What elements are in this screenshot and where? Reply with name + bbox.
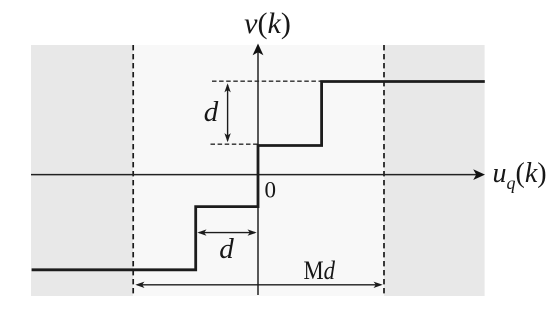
v axis (vertical) <box>257 52 259 295</box>
svg-text:Md: Md <box>304 256 336 285</box>
u axis (horizontal) <box>31 174 477 176</box>
dashed level line at middle step <box>211 143 259 145</box>
svg-text:uq(k): uq(k) <box>493 158 547 193</box>
v axis arrowhead <box>253 44 264 56</box>
dashed boundary line right <box>383 45 385 296</box>
svg-text:0: 0 <box>265 178 277 203</box>
vertical dimension arrow d (step height) <box>227 85 229 141</box>
right saturation region (gray) <box>384 45 485 296</box>
svg-text:v(k): v(k) <box>244 7 291 40</box>
quantizer input range panel (background) <box>31 45 485 296</box>
quantizer staircase curve <box>32 82 485 270</box>
svg-text:d: d <box>204 96 219 128</box>
svg-text:d: d <box>219 233 234 265</box>
u axis arrowhead <box>473 169 485 180</box>
dimension arrow Md (quantizer range) <box>137 284 381 286</box>
left saturation region (gray) <box>31 45 133 296</box>
horizontal dimension arrow d (step width) <box>199 232 255 234</box>
dashed boundary line left <box>132 45 134 296</box>
dashed level line at top step <box>212 80 322 82</box>
